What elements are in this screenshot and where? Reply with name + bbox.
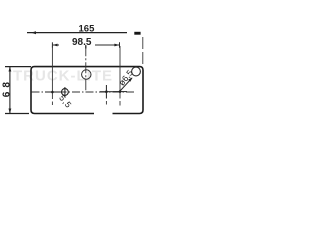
dimension 68 vertical line [9, 67, 11, 114]
dimension 165 left arrow [31, 31, 36, 34]
svg-text:5,5: 5,5 [57, 93, 74, 110]
top right hole circle [132, 67, 141, 76]
lamp body outline [31, 67, 143, 114]
svg-text:165: 165 [79, 24, 96, 35]
dimension 68 bottom arrow [9, 109, 12, 114]
dimension 165 line [27, 32, 127, 34]
dimension 165 right arrow bar [134, 32, 140, 35]
svg-text:TRUCK-LITE: TRUCK-LITE [13, 68, 113, 85]
dimension 98.5 right segment [95, 44, 120, 46]
svg-text:98.5: 98.5 [72, 37, 92, 48]
center dome circle [82, 70, 91, 79]
vertical centerline of lamp [85, 45, 87, 91]
right extension line for 165 [142, 37, 144, 64]
center mark right mounting hole [113, 91, 127, 93]
top extension line [5, 66, 31, 68]
horizontal centerline through holes [32, 91, 137, 93]
witness line left hole [51, 46, 53, 99]
small hole circle left [62, 89, 69, 96]
dimension 68 top arrow [9, 67, 12, 72]
bottom extension line [5, 113, 29, 115]
witness line right hole [119, 46, 121, 99]
center mark left mounting hole [45, 91, 60, 93]
center mark inner right [105, 85, 107, 99]
dimension 98.5 left arrow [51, 42, 53, 47]
svg-text:68: 68 [2, 78, 13, 97]
leader arrow to top-right hole [121, 78, 133, 91]
